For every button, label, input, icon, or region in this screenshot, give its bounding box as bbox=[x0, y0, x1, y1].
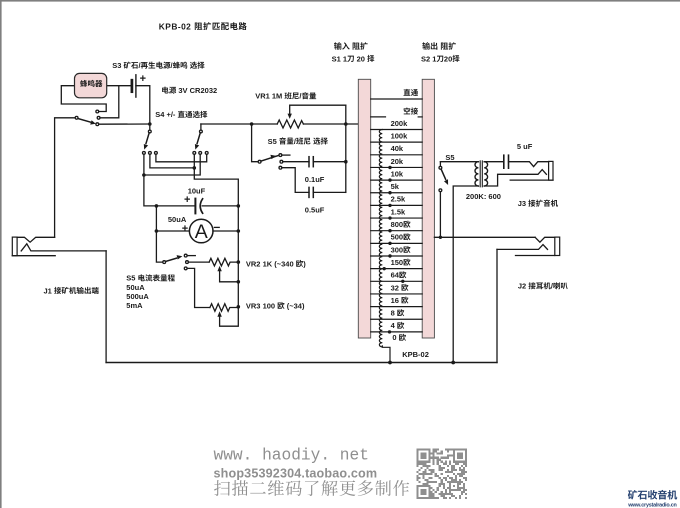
node left rail top bbox=[155, 204, 159, 208]
wire S4 A1 drop to meter bbox=[144, 154, 157, 206]
svg-text:100k: 100k bbox=[391, 131, 409, 140]
node chain to bus bbox=[388, 361, 392, 365]
jack J2 notch and tip bar bbox=[535, 237, 555, 242]
potentiometer VR2 1K body bbox=[209, 258, 238, 266]
switch S5 volume lever bbox=[261, 155, 279, 161]
jack J2 sleeve line bbox=[516, 255, 555, 257]
label C4 5uF bbox=[517, 142, 533, 151]
wire J2 ring drop to bus bbox=[496, 249, 498, 362]
svg-text:800: 800 bbox=[391, 220, 404, 229]
svg-text:KPB-02: KPB-02 bbox=[159, 21, 194, 31]
node right rail ammeter bbox=[237, 229, 241, 233]
switch S5 volume contact mid bbox=[280, 160, 283, 163]
wire rung 300 ohm bbox=[371, 255, 423, 257]
wire battery tap bbox=[100, 86, 119, 118]
svg-text:200K: 600: 200K: 600 bbox=[466, 192, 501, 201]
svg-text:5 uF: 5 uF bbox=[517, 142, 533, 151]
node S4 B1 joint bbox=[193, 166, 197, 170]
svg-text:VR3 100: VR3 100 bbox=[246, 301, 277, 310]
jack J3 sleeve line bbox=[510, 179, 553, 181]
wire rung 10k bbox=[371, 179, 423, 181]
label rung 64 ohm bbox=[391, 271, 407, 280]
switch S3 contact buzzer bbox=[96, 110, 99, 113]
label C3 bbox=[305, 206, 325, 215]
node rail 0.1uF joint bbox=[344, 160, 348, 164]
wire ammeter row left bbox=[156, 230, 189, 232]
wire rung 4 ohm bbox=[371, 331, 423, 333]
svg-text:2.5k: 2.5k bbox=[391, 195, 406, 204]
wire 10uF to right rail bbox=[202, 205, 238, 207]
wire S4 crossover A3-B3 bbox=[156, 154, 207, 162]
wire rung 200k bbox=[371, 129, 423, 131]
svg-text:J1: J1 bbox=[44, 286, 54, 295]
svg-text:S3: S3 bbox=[112, 61, 123, 70]
wire right rail of VR1 caps bbox=[345, 105, 347, 192]
wire battery to S4 junction bbox=[136, 86, 150, 124]
transformer T1 primary winding bbox=[475, 162, 478, 186]
svg-text:50uA: 50uA bbox=[126, 283, 145, 292]
label J3 bbox=[518, 199, 558, 208]
potentiometer VR3 100 body bbox=[210, 304, 238, 312]
label S5 volume bbox=[268, 137, 328, 146]
node S4 A1 joint bbox=[142, 173, 146, 177]
wire chain bottom elbow bbox=[382, 346, 390, 363]
switch S5 volume contact bottom bbox=[279, 166, 282, 169]
svg-text:+: + bbox=[140, 73, 146, 85]
watermark scan text bbox=[214, 480, 409, 496]
label title bbox=[159, 21, 247, 31]
svg-text:A: A bbox=[195, 221, 208, 243]
wire rung direct (zhitong) bbox=[371, 98, 423, 100]
svg-text:10k: 10k bbox=[391, 169, 404, 178]
switch S3 lever bbox=[78, 119, 92, 123]
svg-text:(~34): (~34) bbox=[285, 301, 305, 310]
label J1 bbox=[44, 286, 99, 295]
svg-text:+: + bbox=[182, 223, 188, 235]
label S2 header bbox=[422, 42, 456, 51]
node rail main crossing bbox=[344, 122, 348, 126]
switch S5 volume pole bbox=[252, 124, 259, 162]
wire rung 1.5k bbox=[371, 217, 423, 219]
wire rung 8 ohm bbox=[371, 318, 423, 320]
switch S5 range contact 5mA bbox=[184, 267, 187, 270]
svg-text:0.1uF: 0.1uF bbox=[305, 175, 325, 184]
ammeter M1 body bbox=[189, 219, 213, 243]
wire S2 common to J2 tip bbox=[434, 236, 535, 238]
switch S5 volume contact top bbox=[279, 154, 282, 157]
svg-text:4: 4 bbox=[391, 321, 397, 330]
switch S4 lever A bbox=[146, 133, 149, 144]
node S4 input junction bbox=[148, 122, 152, 126]
wire buzzer right to battery bbox=[107, 85, 131, 87]
svg-text:S5: S5 bbox=[445, 153, 454, 162]
switch S4 contacts B1 B2 B3 bbox=[193, 152, 196, 155]
svg-text:200k: 200k bbox=[391, 119, 409, 128]
switch S3 contact battery bbox=[97, 116, 100, 119]
wire rung 20k bbox=[371, 166, 423, 168]
wire rung 100k bbox=[371, 141, 423, 143]
wire S4 crossover A1-B2 bbox=[144, 154, 200, 175]
label S5 range bbox=[126, 274, 175, 283]
switch S3 pole bbox=[75, 116, 78, 119]
svg-text:1.5k: 1.5k bbox=[391, 207, 406, 216]
jack J1 ring contact bbox=[21, 244, 106, 251]
jack J2 ring contact bbox=[497, 245, 548, 250]
wire rung 2.5k bbox=[371, 204, 423, 206]
watermark taobao bbox=[214, 467, 378, 481]
label rung 40k bbox=[391, 144, 404, 153]
wire secondary bottom to J3 ring bbox=[484, 170, 546, 186]
wire bottom common bus bbox=[106, 362, 497, 364]
label rung 150 ohm bbox=[391, 258, 411, 267]
wire S4 corner to pole B bbox=[200, 124, 202, 130]
svg-text:+: + bbox=[184, 194, 190, 206]
battery B1 positive plate bbox=[135, 75, 137, 97]
label KPB-02 bbox=[402, 350, 429, 359]
svg-text:8: 8 bbox=[391, 309, 397, 318]
label VR2 bbox=[246, 259, 306, 268]
svg-text:32: 32 bbox=[391, 283, 401, 292]
label rung 20k bbox=[391, 157, 404, 166]
label rung 4 ohm bbox=[391, 321, 405, 330]
label rung 500 ohm bbox=[391, 233, 411, 242]
wire rung 64 ohm bbox=[371, 280, 423, 282]
svg-text:S2 1: S2 1 bbox=[421, 54, 436, 63]
label S3 bbox=[112, 61, 204, 70]
transformer T1 secondary winding bbox=[484, 162, 487, 186]
svg-text:shop35392304.taobao.com: shop35392304.taobao.com bbox=[214, 467, 378, 481]
buzzer BZ1 box bbox=[75, 73, 107, 97]
wire S4 B1 drop to meter bbox=[194, 154, 238, 206]
node S5out drop joint bbox=[439, 236, 442, 239]
label ammeter plus bbox=[182, 223, 188, 235]
label S4 bbox=[155, 110, 207, 119]
battery B1 3V CR2032 negative plate bbox=[131, 80, 134, 92]
potentiometer VR1 wiper arrow bbox=[288, 114, 292, 119]
wire meter right rail bbox=[237, 206, 239, 307]
svg-text:5k: 5k bbox=[391, 182, 400, 191]
capacitor C4 5uF bbox=[503, 155, 505, 168]
QR code watermark bbox=[417, 449, 468, 500]
label rung direct bbox=[404, 89, 418, 96]
label J2 bbox=[518, 282, 568, 291]
label rung 100k bbox=[391, 131, 409, 140]
potentiometer VR3 wiper bbox=[217, 311, 221, 316]
svg-text:/: / bbox=[551, 282, 554, 291]
wire rung 150 ohm bbox=[371, 268, 423, 270]
svg-text:/: / bbox=[299, 92, 302, 101]
svg-text:3V CR2032: 3V CR2032 bbox=[176, 86, 217, 95]
label C1 plus bbox=[184, 194, 190, 206]
svg-text:5mA: 5mA bbox=[126, 301, 143, 310]
wire rung open (kongjie) stubs bbox=[371, 116, 386, 118]
label rung open bbox=[404, 107, 418, 114]
svg-text:20: 20 bbox=[355, 54, 368, 63]
resistor chain ladder bbox=[379, 130, 382, 347]
wire S4 crossover A2-B1 bbox=[150, 154, 194, 168]
svg-text:KPB-02: KPB-02 bbox=[402, 350, 429, 359]
switch S3 contact direct bbox=[96, 123, 99, 126]
switch S5 range contact 50uA bbox=[184, 254, 187, 257]
switch S5 output bottom contact bbox=[439, 189, 442, 192]
svg-text:VR1 1M: VR1 1M bbox=[255, 92, 284, 101]
node VR2 wiper joint bbox=[237, 280, 241, 284]
rotary switch S1 body bbox=[358, 79, 370, 338]
label battery plus bbox=[140, 73, 146, 85]
wire transformer primary bottom to bus bbox=[453, 186, 478, 363]
wire S5 to transformer primary top bbox=[440, 161, 478, 163]
wire buzzer loop bbox=[61, 86, 106, 112]
svg-text:S5: S5 bbox=[268, 137, 279, 146]
svg-text:500: 500 bbox=[391, 233, 404, 242]
wire 5uF to J3 bbox=[509, 162, 549, 167]
wire rung 16 ohm bbox=[371, 306, 423, 308]
wire rung 32 ohm bbox=[371, 293, 423, 295]
capacitor C2 0.1uF bbox=[308, 157, 310, 167]
switch S4 contacts A1 A2 A3 bbox=[143, 152, 146, 155]
switch S5 range lever bbox=[166, 258, 177, 261]
svg-text:): ) bbox=[303, 259, 306, 268]
wire main S4 to VR1 bbox=[201, 123, 277, 125]
wire main from S3 bbox=[99, 123, 150, 125]
svg-text:0.5uF: 0.5uF bbox=[305, 206, 325, 215]
label rung 5k bbox=[391, 182, 400, 191]
wire rung 5k bbox=[371, 192, 423, 194]
nodes chain taps bbox=[383, 166, 405, 334]
label S1 header bbox=[334, 42, 368, 51]
svg-text:/: / bbox=[138, 61, 141, 70]
svg-text:J2: J2 bbox=[518, 282, 528, 291]
svg-text:VR2 1K (~340: VR2 1K (~340 bbox=[246, 259, 296, 268]
jack J3 tip bar bbox=[549, 161, 553, 180]
svg-text:S4 +/-: S4 +/- bbox=[155, 110, 177, 119]
wire J1 tip riser bbox=[55, 118, 76, 238]
label rung 1.5k bbox=[391, 207, 406, 216]
capacitor C3 0.5uF bbox=[308, 187, 310, 197]
svg-text:www.crystalradio.cn: www.crystalradio.cn bbox=[627, 503, 676, 508]
transformer T1 core bbox=[479, 161, 481, 187]
svg-text:20: 20 bbox=[444, 54, 452, 63]
wire 10uF row bbox=[156, 205, 195, 207]
label rung 0 ohm bbox=[392, 333, 406, 342]
switch S5 range pole bbox=[163, 261, 166, 264]
label S5 output bbox=[445, 153, 454, 162]
node right rail top bbox=[237, 204, 241, 208]
wire rung 500 ohm bbox=[371, 242, 423, 244]
wire J1 ring drop bbox=[105, 251, 107, 363]
label rung 800 ohm bbox=[391, 220, 411, 229]
label rung 32 ohm bbox=[391, 283, 409, 292]
jack J1 tip bar bbox=[12, 237, 17, 256]
ammeter minus sign bbox=[214, 226, 219, 228]
label C2 bbox=[305, 175, 325, 184]
label transformer ratio bbox=[466, 192, 501, 201]
label rung 10k bbox=[391, 169, 404, 178]
svg-text:500uA: 500uA bbox=[126, 292, 149, 301]
node VR3 right bbox=[237, 305, 241, 309]
label rung 8 ohm bbox=[391, 309, 405, 318]
rotary switch S2 body bbox=[422, 79, 434, 338]
switch S5 output top contact bbox=[439, 162, 441, 167]
switch S4 pole B bbox=[200, 130, 203, 133]
wire VR1 right to rail bbox=[303, 123, 358, 125]
wire secondary top to 5uF bbox=[484, 161, 504, 163]
label rung 16 ohm bbox=[391, 296, 409, 305]
node VR2 right bbox=[237, 260, 241, 264]
switch S5 range contact 500uA bbox=[186, 261, 189, 264]
wire rung 800 ohm bbox=[371, 230, 423, 232]
node S5 volume branch bbox=[250, 122, 254, 126]
wire meter left rail bbox=[156, 206, 162, 262]
jack J1 sleeve line bbox=[12, 255, 55, 257]
watermark haodiy bbox=[214, 447, 369, 465]
label VR1 bbox=[255, 92, 316, 101]
capacitor C1 10uF curved plate bbox=[200, 199, 202, 213]
label C1 10uF bbox=[188, 187, 206, 196]
label rung 200k bbox=[391, 119, 409, 128]
capacitor C1 10uF plus plate bbox=[194, 199, 196, 214]
label battery bbox=[162, 86, 217, 95]
svg-text:S1 1: S1 1 bbox=[332, 54, 347, 63]
potentiometer VR2 wiper bbox=[217, 266, 221, 271]
logo crystalradio bbox=[628, 490, 677, 500]
wire ammeter row right bbox=[213, 230, 238, 232]
node left rail ammeter bbox=[155, 229, 159, 233]
wire rung 40k bbox=[371, 154, 423, 156]
label buzzer text bbox=[80, 80, 102, 87]
svg-text:40k: 40k bbox=[391, 144, 404, 153]
border frame top/left bbox=[0, 0, 680, 2]
jack J1 tip contact bbox=[17, 237, 55, 242]
label VR3 bbox=[246, 301, 305, 310]
node transformer to bus bbox=[451, 361, 455, 365]
label rung 300 ohm bbox=[391, 245, 411, 254]
label rung 2.5k bbox=[391, 195, 406, 204]
svg-text:0: 0 bbox=[392, 333, 398, 342]
potentiometer VR1 1M body bbox=[277, 120, 303, 128]
switch S4 lever B bbox=[197, 133, 200, 144]
label 50uA meter bbox=[168, 215, 187, 224]
svg-text:www. haodiy. net: www. haodiy. net bbox=[214, 447, 369, 465]
svg-text:J3: J3 bbox=[518, 199, 528, 208]
svg-text:S5: S5 bbox=[126, 274, 137, 283]
svg-text:300: 300 bbox=[391, 245, 404, 254]
svg-text:150: 150 bbox=[391, 258, 404, 267]
svg-text:16: 16 bbox=[391, 296, 401, 305]
svg-text:20k: 20k bbox=[391, 157, 404, 166]
switch S4 pole A bbox=[149, 124, 151, 130]
svg-text:64: 64 bbox=[391, 271, 400, 280]
switch S5 output lever bbox=[441, 169, 446, 179]
